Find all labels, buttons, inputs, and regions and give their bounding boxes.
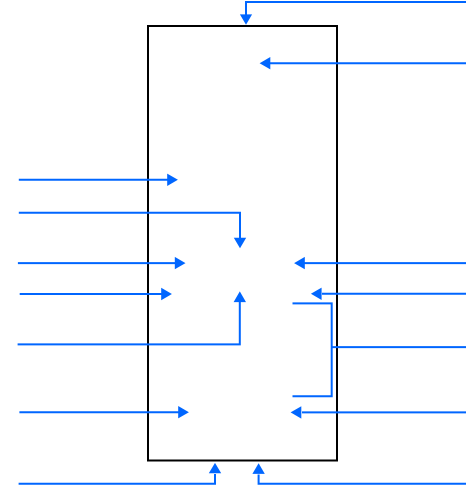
wire: bottom-left input (bends up into box bottom): [19, 474, 215, 484]
wire: upper-right input into box: [270, 62, 466, 64]
arrowhead: left input 4, pointing right: [161, 288, 172, 300]
wire: top input from right: [246, 2, 466, 15]
arrowhead: left input 1, pointing right: [167, 174, 178, 186]
arrowhead: right input 1, pointing left: [294, 257, 305, 269]
wire: right input 3: [302, 411, 466, 413]
arrowhead: bottom-right input, pointing up: [252, 463, 264, 474]
wire: bottom-right input (bends up into box bottom): [259, 475, 466, 484]
arrowhead: right input 2, pointing left: [311, 288, 322, 300]
arrowhead: left input 6, pointing right: [178, 406, 189, 418]
arrowhead: upper-right input, pointing left: [260, 57, 271, 69]
wire: left input 4: [20, 293, 162, 295]
wire: left input 3: [18, 262, 176, 264]
arrowhead: bottom-left input, pointing up: [209, 463, 221, 473]
arrowhead: left input 3, pointing right: [175, 257, 186, 269]
block U1 (black box outline): [148, 26, 337, 461]
wire: left input 1: [19, 179, 168, 181]
wire: bracket output to right edge: [332, 346, 466, 348]
arrowhead: top input, pointing down into box top: [240, 14, 252, 24]
arrowhead: left input 5, pointing up: [234, 291, 246, 302]
arrowhead: left input 2, pointing down: [234, 238, 246, 248]
wire: right input 2: [322, 293, 466, 295]
wire: left input 6: [19, 411, 178, 413]
wire: right input 1: [305, 262, 466, 264]
wire: bracket joining two taps to one right output: [293, 303, 332, 396]
wire: left input 2 (bends down): [19, 213, 240, 238]
wire: left input 5 (bends up inside box): [18, 302, 240, 344]
arrowhead: right input 3, pointing left: [291, 406, 302, 418]
